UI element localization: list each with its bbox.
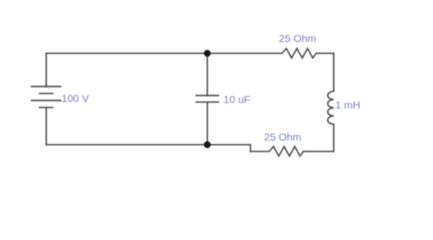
svg-text:25 Ohm: 25 Ohm xyxy=(279,33,317,45)
svg-text:10 uF: 10 uF xyxy=(224,94,251,106)
wire right vertical upper xyxy=(333,53,335,91)
svg-text:1 mH: 1 mH xyxy=(335,100,360,112)
wire bottom middle xyxy=(251,150,270,152)
node junction bottom xyxy=(204,141,211,148)
wire jog down xyxy=(250,145,252,152)
capacitor vertical wire upper xyxy=(206,53,208,95)
capacitor C1 plates xyxy=(196,96,218,103)
capacitor vertical wire lower xyxy=(206,102,208,145)
wire right vertical lower xyxy=(333,124,335,151)
svg-text:100 V: 100 V xyxy=(62,93,89,105)
wire bottom horizontal left xyxy=(46,144,250,146)
wire left vertical lower xyxy=(45,108,47,145)
battery V1 plates xyxy=(32,87,61,108)
wire left vertical upper xyxy=(45,53,47,86)
wire top horizontal right xyxy=(316,52,334,54)
node junction top xyxy=(204,50,211,57)
resistor R1 zigzag xyxy=(282,48,316,58)
svg-text:25 Ohm: 25 Ohm xyxy=(264,131,302,143)
wire top horizontal left xyxy=(46,52,282,54)
wire bottom horizontal right xyxy=(303,150,333,152)
inductor L1 coil xyxy=(328,91,334,124)
resistor R2 zigzag xyxy=(269,147,303,157)
